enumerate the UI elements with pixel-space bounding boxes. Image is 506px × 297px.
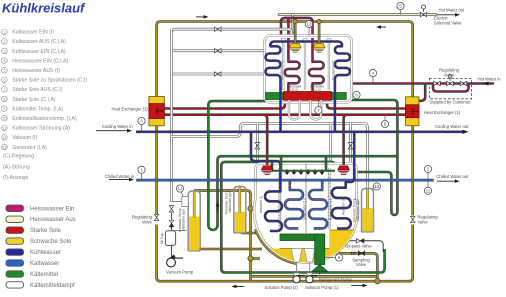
svg-text:Valve: Valve xyxy=(142,220,153,225)
svg-text:Kältemittel Temp. (I,A): Kältemittel Temp. (I,A) xyxy=(12,106,63,112)
svg-text:Heisswasser EIN (C,I,A): Heisswasser EIN (C,I,A) xyxy=(12,58,68,64)
svg-text:Valve: Valve xyxy=(418,220,429,225)
svg-text:13: 13 xyxy=(2,146,6,150)
svg-text:Heat Exchanger (2): Heat Exchanger (2) xyxy=(111,106,148,111)
svg-text:Kaltwasser: Kaltwasser xyxy=(30,261,59,267)
svg-text:stallization pipe: stallization pipe xyxy=(228,191,232,213)
svg-text:10: 10 xyxy=(374,184,379,189)
svg-text:Valve: Valve xyxy=(444,72,455,77)
svg-text:Kältemittel: Kältemittel xyxy=(30,272,58,278)
svg-text:Evaporator (1 I): Evaporator (1 I) xyxy=(329,198,333,220)
svg-text:Cooling Water out: Cooling Water out xyxy=(435,124,469,129)
svg-text:12: 12 xyxy=(2,136,6,140)
svg-text:12: 12 xyxy=(178,186,183,191)
svg-text:Solenoid Valve: Solenoid Valve xyxy=(434,20,462,25)
svg-text:Heisswasser Ein: Heisswasser Ein xyxy=(30,206,74,212)
svg-text:Condenser (I): Condenser (I) xyxy=(332,61,336,81)
svg-text:Kältemitteldampf: Kältemitteldampf xyxy=(30,283,75,289)
svg-text:10: 10 xyxy=(2,117,6,121)
svg-text:Starke Sole zu Sprühdüsen (C,I: Starke Sole zu Sprühdüsen (C,I) xyxy=(12,78,87,84)
svg-text:Kaltwasser AUS (C,I,A): Kaltwasser AUS (C,I,A) xyxy=(12,39,66,45)
svg-text:Hot Water in: Hot Water in xyxy=(478,77,502,82)
svg-text:Generator (I,A): Generator (I,A) xyxy=(12,145,47,151)
svg-text:9: 9 xyxy=(3,107,5,111)
svg-text:Chilled Water out: Chilled Water out xyxy=(436,174,469,179)
svg-text:4: 4 xyxy=(3,59,5,63)
svg-text:(1) (I): (1) (I) xyxy=(313,88,321,92)
svg-text:(2) (I): (2) (I) xyxy=(290,88,298,92)
svg-text:5: 5 xyxy=(3,69,5,73)
svg-text:(I)-Anzeige: (I)-Anzeige xyxy=(3,175,28,181)
svg-text:By-pass Valve: By-pass Valve xyxy=(345,244,372,249)
svg-text:Refrigerant Pump: Refrigerant Pump xyxy=(319,277,352,282)
svg-text:stallization pipe: stallization pipe xyxy=(356,199,360,221)
svg-text:2: 2 xyxy=(3,40,5,44)
svg-text:Kühlwasser: Kühlwasser xyxy=(30,250,61,256)
svg-text:Absorber (I): Absorber (I) xyxy=(259,196,263,213)
svg-text:Kaltwasser Strömung (A): Kaltwasser Strömung (A) xyxy=(12,126,70,132)
svg-text:Starke Sole AUS (C,I): Starke Sole AUS (C,I) xyxy=(12,87,62,93)
svg-text:Oil Trap: Oil Trap xyxy=(160,233,164,244)
svg-text:13: 13 xyxy=(307,22,312,27)
svg-text:Supplied by Customer: Supplied by Customer xyxy=(429,99,471,104)
svg-text:8: 8 xyxy=(3,98,5,102)
svg-text:Hot Water out: Hot Water out xyxy=(439,7,466,12)
svg-text:Schwache Sole: Schwache Sole xyxy=(30,239,72,245)
svg-text:Heisswasser AUS (I): Heisswasser AUS (I) xyxy=(12,68,60,74)
svg-text:3: 3 xyxy=(3,50,5,54)
svg-text:6: 6 xyxy=(3,78,5,82)
svg-text:Kühlkreislauf: Kühlkreislauf xyxy=(2,0,86,15)
svg-text:1: 1 xyxy=(3,30,5,34)
svg-text:Condenser (I): Condenser (I) xyxy=(280,61,284,81)
svg-text:Chilled Water in: Chilled Water in xyxy=(105,174,135,179)
svg-text:Starke Sole (C,I,A): Starke Sole (C,I,A) xyxy=(12,97,56,103)
svg-text:(C)-Regelung: (C)-Regelung xyxy=(3,154,34,160)
svg-text:Heat Exchanger (1): Heat Exchanger (1) xyxy=(424,110,461,115)
svg-text:Solution Pump (2): Solution Pump (2) xyxy=(265,285,299,290)
svg-text:(A)-Störung: (A)-Störung xyxy=(3,165,30,171)
svg-text:Entkristallisationstemp. (I,A): Entkristallisationstemp. (I,A) xyxy=(12,116,77,122)
svg-text:Cooling Water in: Cooling Water in xyxy=(102,124,133,129)
svg-text:Kühlwasser EIN (C,I,A): Kühlwasser EIN (C,I,A) xyxy=(12,49,66,55)
svg-text:Vakuum (I): Vakuum (I) xyxy=(12,135,37,141)
svg-text:Starke Sole: Starke Sole xyxy=(30,228,62,234)
svg-text:Kaltwasser EIN (I): Kaltwasser EIN (I) xyxy=(12,30,54,36)
svg-text:Solution Pump (1): Solution Pump (1) xyxy=(305,285,339,290)
svg-text:Vacuum Pump: Vacuum Pump xyxy=(166,270,194,275)
svg-text:Absorber (I): Absorber (I) xyxy=(342,198,346,215)
svg-text:Valve: Valve xyxy=(356,262,367,267)
svg-text:11: 11 xyxy=(2,126,6,130)
svg-text:stallization pipe: stallization pipe xyxy=(182,209,186,231)
svg-text:11: 11 xyxy=(426,189,431,194)
svg-text:7: 7 xyxy=(3,88,5,92)
svg-text:Heisswasser Aus: Heisswasser Aus xyxy=(30,217,76,223)
svg-text:Evaporator (2 I): Evaporator (2 I) xyxy=(303,198,307,220)
